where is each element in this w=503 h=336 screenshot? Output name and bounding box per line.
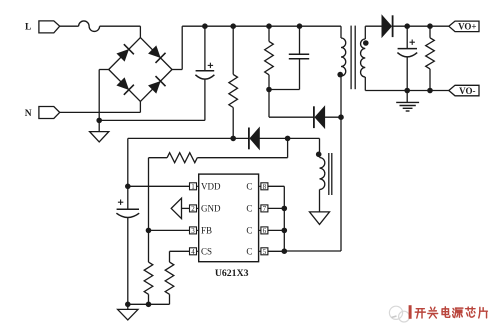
svg-text:C: C bbox=[246, 204, 252, 214]
node R1 bottom junction bbox=[230, 136, 236, 142]
node aux junction bbox=[285, 136, 291, 142]
wire drain bus bbox=[268, 186, 284, 251]
pin number 8 bbox=[263, 183, 267, 191]
svg-text:C: C bbox=[246, 182, 252, 192]
capacitor C2 (snubber) bbox=[269, 26, 309, 89]
watermark char 关 bbox=[428, 307, 438, 318]
capacitor C1 (bulk electrolytic) bbox=[195, 26, 214, 79]
wire output bottom rail bbox=[365, 90, 449, 92]
aux winding core bbox=[329, 153, 332, 195]
svg-text:6: 6 bbox=[263, 227, 267, 235]
bridge diode D4 (bottom-to-right edge) bbox=[140, 70, 172, 102]
op-amp U1 body (U621X3 controller) bbox=[199, 174, 259, 262]
svg-text:L: L bbox=[25, 23, 31, 33]
pin 6 square bbox=[259, 227, 268, 234]
svg-text:2: 2 bbox=[191, 205, 195, 213]
terminal connector VO- bbox=[449, 85, 479, 96]
wire bridge left vertex down bbox=[99, 70, 109, 132]
diode D5 (clamp) bbox=[314, 106, 325, 128]
ground (IC) bbox=[118, 309, 138, 320]
svg-text:7: 7 bbox=[263, 205, 267, 213]
svg-text:VO+: VO+ bbox=[458, 22, 476, 32]
pin 8 square bbox=[259, 183, 268, 190]
node snubber join bbox=[266, 87, 272, 93]
svg-text:VDD: VDD bbox=[201, 182, 221, 192]
svg-text:8: 8 bbox=[263, 183, 267, 191]
svg-text:C: C bbox=[246, 226, 252, 236]
label VO- bbox=[459, 86, 475, 96]
wire CS to pin 4 bbox=[170, 251, 190, 262]
diode D6 (output rectifier) bbox=[382, 15, 393, 37]
wire bottom rail bbox=[128, 304, 170, 309]
watermark logo circles bbox=[389, 306, 409, 322]
wire clamp diode to drain bbox=[325, 116, 341, 118]
resistor R6 (current sense) bbox=[165, 262, 174, 304]
bridge diode D1 (left-to-top edge) bbox=[109, 38, 141, 70]
pin 5 square bbox=[259, 248, 268, 255]
pin number 2 bbox=[191, 205, 195, 213]
node C4 bottom junction bbox=[125, 302, 131, 308]
wire DC- rail bbox=[99, 80, 205, 121]
watermark char 源 bbox=[453, 308, 463, 317]
node input ground junction bbox=[96, 118, 102, 124]
watermark char 电 bbox=[442, 307, 450, 317]
resistor R2 (snubber) bbox=[265, 26, 274, 89]
wire output diode to VO+ bbox=[393, 25, 449, 27]
pin label FB bbox=[201, 226, 212, 236]
watermark char 开 bbox=[415, 309, 425, 318]
wire snubber to clamp diode bbox=[269, 90, 313, 118]
node output cap bottom bbox=[404, 88, 410, 94]
label L bbox=[25, 23, 31, 33]
ground arrow (aux) bbox=[310, 212, 330, 225]
transformer T1 secondary winding bbox=[361, 26, 366, 90]
label U621X3 bbox=[215, 268, 249, 279]
resistor R1 (startup) bbox=[229, 26, 238, 138]
pin 2 square bbox=[190, 205, 199, 212]
transformer T1 primary winding bbox=[341, 26, 346, 76]
pin 4 square bbox=[190, 248, 199, 255]
pin label C5 bbox=[246, 247, 252, 257]
pin label C8 bbox=[246, 182, 252, 192]
wire DC+ rail bbox=[182, 25, 341, 27]
wire L to fuse bbox=[60, 25, 79, 27]
wire D7 to aux junction bbox=[259, 138, 319, 157]
wire drain line bbox=[284, 76, 341, 251]
pin number 6 bbox=[263, 227, 267, 235]
aux winding L1 bbox=[320, 158, 325, 212]
resistor R4 (feedback upper) bbox=[149, 153, 198, 163]
node R1 top bbox=[230, 23, 236, 29]
pin label C6 bbox=[246, 226, 252, 236]
svg-text:1: 1 bbox=[191, 183, 195, 191]
wire N to bridge bottom bbox=[60, 101, 141, 112]
T1 secondary polarity dot bbox=[363, 40, 369, 46]
svg-text:4: 4 bbox=[191, 248, 195, 256]
pin label GND bbox=[201, 204, 221, 214]
node pin6 bus bbox=[282, 228, 288, 234]
pin number 4 bbox=[191, 248, 195, 256]
watermark char 芯 bbox=[466, 307, 475, 317]
node C1 top bbox=[202, 23, 208, 29]
terminal connector L bbox=[39, 21, 60, 33]
terminal connector N bbox=[39, 107, 60, 119]
bridge diode D2 (top-to-right edge) bbox=[140, 38, 172, 70]
resistor R3 (load) bbox=[426, 26, 435, 90]
watermark char 片 bbox=[479, 307, 488, 318]
node C2 top bbox=[297, 23, 303, 29]
bridge diode D3 (left-to-bottom edge) bbox=[109, 70, 141, 102]
pin number 1 bbox=[191, 183, 195, 191]
svg-text:GND: GND bbox=[201, 204, 221, 214]
node output cap top bbox=[404, 23, 410, 29]
transformer T1 core bbox=[351, 26, 355, 90]
label VO+ bbox=[458, 22, 476, 32]
pin 7 square bbox=[259, 205, 268, 212]
svg-text:CS: CS bbox=[201, 247, 212, 257]
wire VDD to pin 1 bbox=[128, 185, 190, 187]
node bottom rail junction bbox=[146, 302, 152, 308]
svg-text:VO-: VO- bbox=[459, 86, 475, 96]
fuse F1 bbox=[79, 21, 100, 31]
T1 primary polarity dot bbox=[337, 72, 343, 78]
svg-text:U621X3: U621X3 bbox=[215, 268, 249, 279]
label N bbox=[25, 109, 32, 119]
pin number 3 bbox=[191, 227, 195, 235]
svg-text:C: C bbox=[246, 247, 252, 257]
watermark red bar bbox=[409, 305, 412, 319]
pin label C7 bbox=[246, 204, 252, 214]
node load resistor top bbox=[427, 23, 433, 29]
node drain-clamp junction bbox=[338, 114, 344, 120]
node VDD pin junction bbox=[125, 184, 131, 190]
pin label VDD bbox=[201, 182, 221, 192]
wire secondary top to output diode bbox=[365, 25, 382, 27]
node pin5 bus bbox=[282, 248, 288, 254]
wire VDD top run bbox=[128, 138, 249, 186]
wire fuse to bridge top bbox=[100, 26, 141, 37]
capacitor C4 (VDD electrolytic) bbox=[116, 186, 139, 304]
node load resistor bottom bbox=[427, 88, 433, 94]
wire bridge right vertex to rail bbox=[172, 26, 182, 69]
ground arrow (GND pin) bbox=[171, 198, 189, 218]
capacitor C3 (output electrolytic) bbox=[397, 26, 417, 90]
pin label CS bbox=[201, 247, 212, 257]
svg-text:5: 5 bbox=[263, 248, 267, 256]
wire FB to pin 3 bbox=[149, 229, 190, 231]
pin number 5 bbox=[263, 248, 267, 256]
wire aux junction to R4 bbox=[197, 138, 287, 157]
diode D7 (VDD rectifier) bbox=[249, 128, 259, 150]
node pin7 bus bbox=[282, 206, 288, 212]
node R2 top bbox=[266, 23, 272, 29]
ground (input) bbox=[90, 132, 109, 142]
resistor R5 (feedback lower) bbox=[144, 262, 153, 304]
earth ground (output) bbox=[396, 91, 419, 112]
aux winding polarity dot bbox=[316, 152, 322, 158]
svg-text:N: N bbox=[25, 109, 32, 119]
svg-text:FB: FB bbox=[201, 226, 212, 236]
pin number 7 bbox=[263, 205, 267, 213]
node FB pin junction bbox=[146, 228, 152, 234]
terminal connector VO+ bbox=[449, 21, 479, 32]
pin 3 square bbox=[190, 227, 199, 234]
svg-text:3: 3 bbox=[191, 227, 195, 235]
wire FB line bbox=[148, 158, 150, 262]
pin 1 square bbox=[190, 183, 199, 190]
